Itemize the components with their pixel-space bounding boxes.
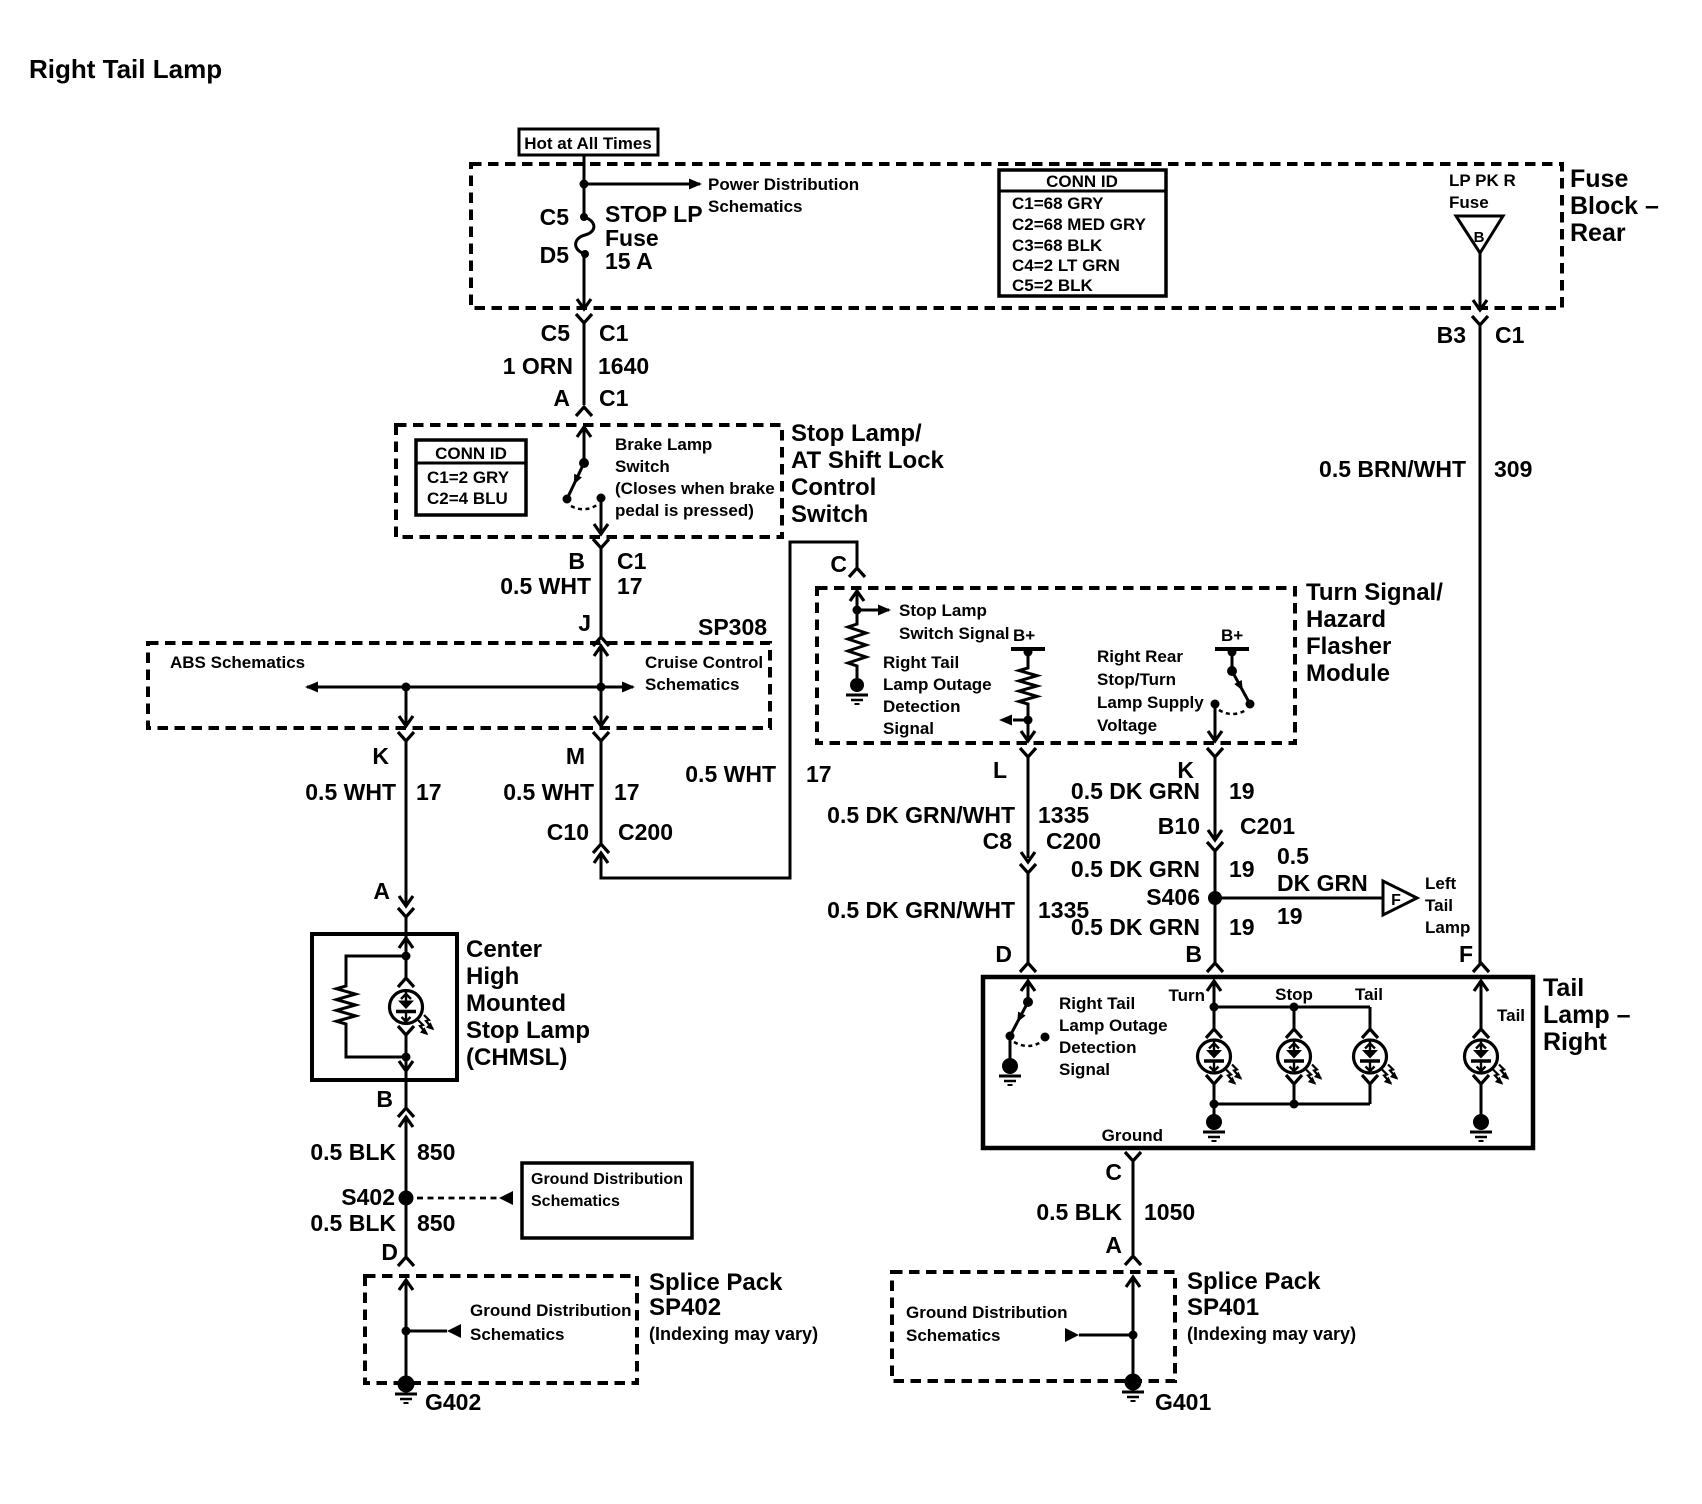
svg-text:(Indexing may vary): (Indexing may vary) xyxy=(1187,1324,1356,1344)
svg-text:(Closes when brake: (Closes when brake xyxy=(615,479,775,498)
svg-text:Center: Center xyxy=(466,936,542,963)
svg-text:Turn Signal/: Turn Signal/ xyxy=(1306,579,1443,606)
svg-text:SP402: SP402 xyxy=(649,1294,721,1321)
svg-text:D: D xyxy=(995,941,1012,967)
svg-text:Block –: Block – xyxy=(1570,192,1659,220)
svg-text:Hazard: Hazard xyxy=(1306,606,1386,633)
svg-text:Lamp Outage: Lamp Outage xyxy=(883,675,992,694)
svg-text:B: B xyxy=(568,548,585,574)
svg-text:Lamp Outage: Lamp Outage xyxy=(1059,1016,1168,1035)
svg-text:A: A xyxy=(373,878,390,904)
svg-text:G402: G402 xyxy=(425,1389,481,1415)
svg-text:B+: B+ xyxy=(1013,626,1035,645)
svg-text:1 ORN: 1 ORN xyxy=(503,353,573,379)
svg-text:Switch Signal: Switch Signal xyxy=(899,624,1010,643)
svg-text:CONN ID: CONN ID xyxy=(1046,172,1118,191)
svg-text:850: 850 xyxy=(417,1210,455,1236)
svg-text:Module: Module xyxy=(1306,660,1390,687)
svg-text:Ground Distribution: Ground Distribution xyxy=(470,1301,631,1320)
svg-text:C1: C1 xyxy=(617,548,647,574)
svg-text:DK GRN: DK GRN xyxy=(1277,870,1368,896)
svg-text:19: 19 xyxy=(1229,778,1255,804)
svg-text:Cruise Control: Cruise Control xyxy=(645,653,763,672)
svg-text:C1: C1 xyxy=(1495,322,1525,348)
svg-text:Switch: Switch xyxy=(791,501,868,528)
svg-text:A: A xyxy=(553,385,570,411)
svg-text:19: 19 xyxy=(1229,914,1255,940)
svg-text:Right: Right xyxy=(1543,1028,1608,1056)
svg-text:0.5 WHT: 0.5 WHT xyxy=(503,779,594,805)
svg-text:0.5: 0.5 xyxy=(1277,843,1309,869)
svg-text:Right Tail Lamp: Right Tail Lamp xyxy=(29,54,222,84)
svg-text:Schematics: Schematics xyxy=(906,1326,1001,1345)
svg-text:C3=68 BLK: C3=68 BLK xyxy=(1012,236,1103,255)
svg-text:Schematics: Schematics xyxy=(470,1325,565,1344)
svg-text:17: 17 xyxy=(416,779,442,805)
svg-text:17: 17 xyxy=(806,761,832,787)
svg-text:SP308: SP308 xyxy=(698,614,767,640)
svg-text:Fuse: Fuse xyxy=(1570,165,1628,193)
svg-text:C1: C1 xyxy=(599,385,629,411)
svg-text:0.5 WHT: 0.5 WHT xyxy=(500,573,591,599)
svg-text:C200: C200 xyxy=(1046,828,1101,854)
svg-text:K: K xyxy=(372,743,389,769)
svg-text:0.5 BLK: 0.5 BLK xyxy=(310,1210,396,1236)
svg-text:(CHMSL): (CHMSL) xyxy=(466,1044,567,1071)
svg-text:17: 17 xyxy=(614,779,640,805)
svg-text:Schematics: Schematics xyxy=(708,197,803,216)
svg-text:Right Rear: Right Rear xyxy=(1097,647,1183,666)
svg-text:Voltage: Voltage xyxy=(1097,716,1157,735)
svg-text:C1: C1 xyxy=(599,320,629,346)
svg-text:Flasher: Flasher xyxy=(1306,633,1391,660)
svg-text:Stop Lamp: Stop Lamp xyxy=(899,601,987,620)
svg-text:S402: S402 xyxy=(341,1184,395,1210)
svg-text:(Indexing may vary): (Indexing may vary) xyxy=(649,1324,818,1344)
svg-text:Hot at All Times: Hot at All Times xyxy=(524,134,652,153)
svg-text:Ground Distribution: Ground Distribution xyxy=(531,1171,683,1188)
svg-text:A: A xyxy=(1105,1232,1122,1258)
svg-text:Left: Left xyxy=(1425,874,1457,893)
svg-text:1640: 1640 xyxy=(598,353,649,379)
svg-text:F: F xyxy=(1391,892,1401,909)
svg-text:Splice Pack: Splice Pack xyxy=(649,1269,783,1296)
svg-text:Stop: Stop xyxy=(1275,985,1313,1004)
svg-text:C: C xyxy=(1105,1159,1122,1185)
svg-text:B10: B10 xyxy=(1158,813,1200,839)
svg-text:Right Tail: Right Tail xyxy=(883,653,959,672)
svg-text:STOP LP: STOP LP xyxy=(605,201,703,227)
svg-text:F: F xyxy=(1459,941,1473,967)
svg-text:Signal: Signal xyxy=(1059,1060,1110,1079)
svg-text:B: B xyxy=(376,1086,393,1112)
svg-text:Power Distribution: Power Distribution xyxy=(708,175,859,194)
svg-text:C2=4 BLU: C2=4 BLU xyxy=(427,489,508,508)
svg-text:Lamp –: Lamp – xyxy=(1543,1001,1631,1029)
svg-text:0.5 BLK: 0.5 BLK xyxy=(1036,1199,1122,1225)
svg-text:High: High xyxy=(466,963,519,990)
svg-text:Right Tail: Right Tail xyxy=(1059,994,1135,1013)
svg-text:C4=2 LT GRN: C4=2 LT GRN xyxy=(1012,256,1120,275)
svg-text:Turn: Turn xyxy=(1168,986,1205,1005)
svg-text:LP PK R: LP PK R xyxy=(1449,171,1516,190)
svg-text:Mounted: Mounted xyxy=(466,990,566,1017)
svg-text:M: M xyxy=(566,743,585,769)
svg-text:0.5 BLK: 0.5 BLK xyxy=(310,1139,396,1165)
svg-text:B3: B3 xyxy=(1437,322,1466,348)
svg-text:B+: B+ xyxy=(1221,626,1243,645)
svg-text:S406: S406 xyxy=(1146,884,1200,910)
svg-text:Switch: Switch xyxy=(615,457,670,476)
svg-text:C200: C200 xyxy=(618,819,673,845)
svg-text:pedal is pressed): pedal is pressed) xyxy=(615,501,754,520)
svg-text:Tail: Tail xyxy=(1425,896,1453,915)
svg-text:AT Shift Lock: AT Shift Lock xyxy=(791,447,945,474)
svg-text:L: L xyxy=(993,757,1007,783)
svg-text:Lamp Supply: Lamp Supply xyxy=(1097,693,1204,712)
svg-text:C8: C8 xyxy=(983,828,1013,854)
svg-text:0.5 WHT: 0.5 WHT xyxy=(305,779,396,805)
svg-text:CONN ID: CONN ID xyxy=(435,444,507,463)
svg-text:0.5 DK GRN/WHT: 0.5 DK GRN/WHT xyxy=(827,802,1015,828)
svg-text:C1=2 GRY: C1=2 GRY xyxy=(427,468,510,487)
svg-text:Ground Distribution: Ground Distribution xyxy=(906,1303,1067,1322)
svg-text:Schematics: Schematics xyxy=(645,675,740,694)
svg-text:D: D xyxy=(381,1239,398,1265)
svg-text:J: J xyxy=(578,610,591,636)
svg-text:Signal: Signal xyxy=(883,719,934,738)
svg-text:Detection: Detection xyxy=(883,697,960,716)
svg-text:0.5 DK GRN/WHT: 0.5 DK GRN/WHT xyxy=(827,897,1015,923)
svg-text:C201: C201 xyxy=(1240,813,1295,839)
svg-text:ABS Schematics: ABS Schematics xyxy=(170,653,305,672)
svg-text:15 A: 15 A xyxy=(605,248,653,274)
svg-text:0.5 DK GRN: 0.5 DK GRN xyxy=(1071,856,1200,882)
svg-text:C1=68 GRY: C1=68 GRY xyxy=(1012,194,1104,213)
svg-text:Fuse: Fuse xyxy=(1449,193,1489,212)
svg-text:Stop Lamp/: Stop Lamp/ xyxy=(791,420,922,447)
svg-text:Lamp: Lamp xyxy=(1425,918,1470,937)
svg-text:850: 850 xyxy=(417,1139,455,1165)
svg-text:Splice Pack: Splice Pack xyxy=(1187,1268,1321,1295)
svg-text:Tail: Tail xyxy=(1543,974,1584,1002)
svg-text:0.5 DK GRN: 0.5 DK GRN xyxy=(1071,778,1200,804)
svg-text:Stop/Turn: Stop/Turn xyxy=(1097,670,1176,689)
svg-text:Rear: Rear xyxy=(1570,219,1626,247)
svg-text:SP401: SP401 xyxy=(1187,1294,1259,1321)
svg-text:309: 309 xyxy=(1494,456,1532,482)
svg-text:Ground: Ground xyxy=(1102,1126,1163,1145)
svg-text:Detection: Detection xyxy=(1059,1038,1136,1057)
svg-text:17: 17 xyxy=(617,573,643,599)
svg-text:Control: Control xyxy=(791,474,876,501)
svg-text:Tail: Tail xyxy=(1497,1006,1525,1025)
svg-text:C5: C5 xyxy=(540,204,570,230)
svg-text:C5=2 BLK: C5=2 BLK xyxy=(1012,276,1093,295)
svg-text:D5: D5 xyxy=(540,242,570,268)
svg-text:0.5 WHT: 0.5 WHT xyxy=(685,761,776,787)
svg-text:B: B xyxy=(1185,941,1202,967)
svg-text:1050: 1050 xyxy=(1144,1199,1195,1225)
svg-text:G401: G401 xyxy=(1155,1389,1211,1415)
svg-text:B: B xyxy=(1474,229,1485,246)
svg-text:C2=68 MED GRY: C2=68 MED GRY xyxy=(1012,215,1147,234)
svg-text:C: C xyxy=(830,551,847,577)
svg-text:C10: C10 xyxy=(547,819,589,845)
svg-text:Schematics: Schematics xyxy=(531,1193,620,1210)
svg-text:Stop Lamp: Stop Lamp xyxy=(466,1017,590,1044)
svg-text:19: 19 xyxy=(1277,903,1303,929)
svg-text:19: 19 xyxy=(1229,856,1255,882)
svg-text:Brake Lamp: Brake Lamp xyxy=(615,435,712,454)
svg-text:Tail: Tail xyxy=(1355,985,1383,1004)
svg-text:C5: C5 xyxy=(541,320,571,346)
svg-text:0.5 DK GRN: 0.5 DK GRN xyxy=(1071,914,1200,940)
svg-text:0.5 BRN/WHT: 0.5 BRN/WHT xyxy=(1319,456,1466,482)
svg-text:1335: 1335 xyxy=(1038,802,1089,828)
